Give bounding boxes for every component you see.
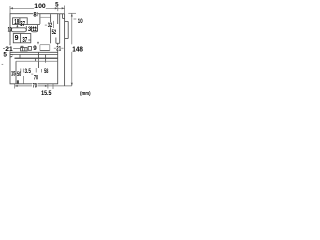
svg-text:5: 5 (55, 2, 59, 9)
svg-text:5: 5 (3, 52, 7, 59)
svg-text:52: 52 (52, 29, 57, 36)
svg-text:(mm): (mm) (80, 91, 90, 97)
svg-text:15.5: 15.5 (41, 90, 52, 97)
svg-text:21: 21 (56, 45, 61, 52)
svg-text:10: 10 (78, 18, 83, 25)
svg-text:148: 148 (72, 44, 83, 53)
svg-text:18: 18 (14, 17, 19, 26)
svg-text:37: 37 (20, 21, 25, 28)
svg-text:9: 9 (15, 35, 19, 42)
svg-text:70: 70 (33, 83, 38, 90)
svg-text:15: 15 (11, 70, 16, 77)
svg-text:11: 11 (33, 27, 38, 33)
svg-text:58: 58 (44, 69, 49, 75)
svg-text:37: 37 (22, 37, 27, 44)
svg-text:10: 10 (8, 28, 13, 34)
svg-text:50: 50 (17, 71, 22, 78)
svg-text:70: 70 (34, 74, 38, 81)
svg-text:9: 9 (33, 45, 37, 52)
svg-text:100: 100 (34, 3, 46, 10)
svg-text:3.5: 3.5 (25, 69, 32, 75)
